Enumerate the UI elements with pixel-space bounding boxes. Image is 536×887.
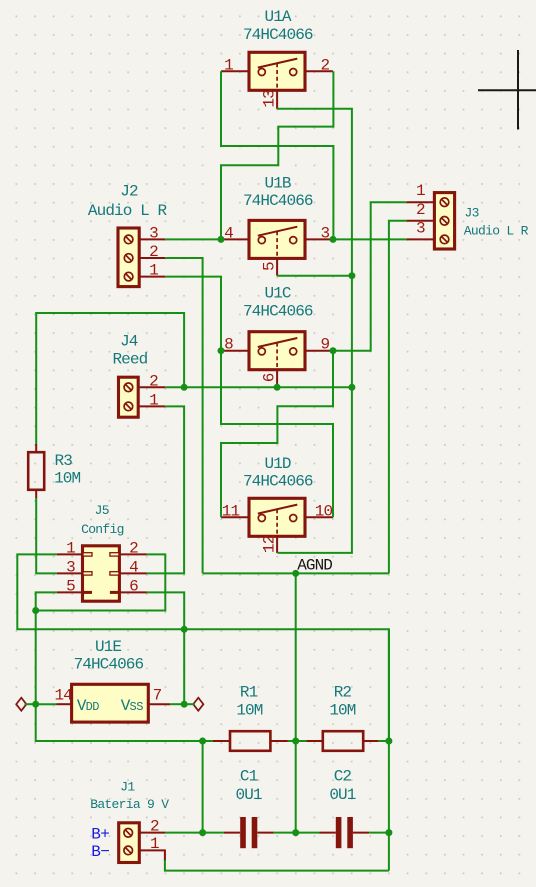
svg-text:2: 2 [129, 539, 138, 557]
junction [348, 272, 355, 279]
svg-text:R2: R2 [334, 684, 352, 702]
junction [199, 738, 206, 745]
wire AGND stem down to capacitor row [295, 573, 297, 832]
svg-text:C1: C1 [240, 768, 258, 786]
svg-text:2: 2 [416, 201, 425, 219]
wire U1C pin9 node to J3 pin1 [333, 202, 406, 351]
svg-text:1: 1 [149, 391, 158, 409]
junction [330, 236, 337, 243]
svg-text:3: 3 [66, 558, 75, 576]
svg-text:14: 14 [54, 687, 72, 705]
svg-text:4: 4 [129, 558, 138, 576]
junction [181, 701, 188, 708]
wire U1C pin9 node to U1D pin11 [221, 351, 333, 518]
junction [385, 829, 392, 836]
wire J2 pin2 down to AGND row [165, 258, 202, 573]
wire rail to R1 [203, 740, 213, 742]
svg-text:10M: 10M [329, 701, 355, 719]
svg-text:J3: J3 [465, 206, 479, 221]
wire J2 pin3 to node [165, 238, 221, 240]
junction [348, 384, 355, 391]
svg-text:5: 5 [66, 577, 75, 595]
wire U1B pin5 to control rail [277, 275, 352, 277]
wire J5 pin6 down to U1E pin7 node [147, 592, 184, 704]
wire stub to left diamond [25, 703, 36, 705]
wire J4 pin2 node up-left-down to R3 top [36, 313, 184, 444]
svg-text:74HC4066: 74HC4066 [243, 473, 313, 491]
svg-text:Reed: Reed [112, 350, 147, 368]
svg-text:Batería 9 V: Batería 9 V [90, 797, 169, 812]
analog switch U1A 74HC4066 [221, 8, 333, 109]
svg-text:9: 9 [320, 336, 329, 354]
wire AGND row up to J3 pin2 [389, 221, 406, 574]
svg-text:B+: B+ [91, 825, 109, 843]
svg-text:Audio L R: Audio L R [88, 202, 168, 220]
connector J4 Reed [112, 332, 165, 417]
svg-text:J2: J2 [120, 183, 138, 201]
wire R2 to VSS column [379, 740, 389, 742]
wire U1A pin2 cross-over to J2.3/U1B.4 node [221, 71, 333, 239]
svg-text:1: 1 [150, 835, 159, 853]
wire stub to right diamond [184, 703, 195, 705]
wire C1 to C2 mid node [274, 832, 320, 834]
wire C2 right to VSS column [369, 832, 389, 834]
svg-text:1: 1 [224, 56, 233, 74]
svg-text:3: 3 [416, 219, 425, 237]
wire AGND row [203, 572, 389, 574]
svg-text:B−: B− [91, 843, 109, 861]
svg-text:R3: R3 [55, 452, 73, 470]
svg-text:3: 3 [149, 224, 158, 242]
power unit U1E 74HC4066 VDD/VSS [54, 638, 170, 722]
junction [181, 626, 188, 633]
svg-text:4: 4 [224, 224, 233, 242]
junction [385, 738, 392, 745]
svg-text:2: 2 [320, 56, 329, 74]
svg-text:74HC4066: 74HC4066 [243, 192, 313, 210]
svg-text:U1D: U1D [265, 455, 291, 473]
svg-text:AGND: AGND [297, 557, 332, 575]
svg-text:U1C: U1C [265, 285, 291, 303]
wire VSS column down [388, 629, 390, 870]
wire U1A pin13 / control rail down to U1D pin12 [277, 109, 352, 553]
wire J2 pin1 down to U1C pin8 node [165, 277, 221, 351]
svg-text:R1: R1 [240, 684, 258, 702]
wire J1 pin1 loop to VSS column [165, 860, 389, 871]
wire U1E pin7 to node [170, 703, 184, 705]
svg-text:10: 10 [315, 502, 333, 520]
junction [199, 829, 206, 836]
svg-text:U1E: U1E [95, 638, 121, 656]
svg-text:U1B: U1B [265, 175, 291, 193]
svg-text:10M: 10M [236, 701, 262, 719]
junction [218, 347, 225, 354]
no-connect diamond right of U1E pin 7 [193, 698, 203, 711]
wire U1A pin1 cross-over to U1B.3/J3.3 node [221, 71, 333, 239]
junction [292, 570, 299, 577]
wire B+ column down to J1 pin2 row [202, 741, 204, 833]
svg-text:12: 12 [261, 535, 279, 553]
resistor R1 10M [213, 684, 288, 751]
connector J1 Bateria 9 V [90, 780, 169, 863]
wire R3 bottom to J5 pin3 [36, 498, 57, 573]
svg-text:J5: J5 [95, 503, 109, 518]
svg-text:10M: 10M [54, 470, 80, 488]
svg-text:6: 6 [129, 577, 138, 595]
svg-text:1: 1 [149, 262, 158, 280]
wire J5 pin5 / VDD column down to rail [36, 592, 203, 741]
svg-text:C2: C2 [334, 768, 352, 786]
no-connect diamond left of U1E pin 14 [16, 698, 26, 711]
svg-text:2: 2 [149, 372, 158, 390]
wire R1 to R2 mid node [288, 740, 306, 742]
svg-text:2: 2 [149, 243, 158, 261]
svg-text:J4: J4 [120, 332, 138, 350]
svg-text:3: 3 [320, 224, 329, 242]
svg-text:5: 5 [261, 262, 279, 271]
svg-text:U1A: U1A [265, 8, 292, 26]
capacitor C2 0U1 [320, 768, 370, 849]
wire J4 pin2 row / switch-control net [165, 386, 352, 388]
svg-text:J1: J1 [120, 780, 135, 795]
svg-text:Config: Config [81, 522, 124, 537]
junction [292, 738, 299, 745]
svg-text:VDD: VDD [77, 697, 99, 715]
analog switch U1B 74HC4066 [221, 175, 333, 276]
connector J3 Audio L R [406, 182, 528, 249]
svg-text:74HC4066: 74HC4066 [243, 26, 313, 44]
svg-text:11: 11 [222, 502, 240, 520]
wire J4 pin1 down to J5 pin4 [147, 406, 184, 573]
junction [292, 829, 299, 836]
wire U1C pin8 node to U1D pin10 [221, 351, 333, 518]
capacitor C1 0U1 [224, 768, 274, 849]
wire J5 pin1 loop to VSS column [17, 554, 389, 741]
svg-text:74HC4066: 74HC4066 [243, 303, 313, 321]
wire J1 pin2 to C1 [165, 832, 224, 834]
resistor R2 10M [306, 684, 378, 751]
svg-text:8: 8 [224, 336, 233, 354]
svg-text:1: 1 [416, 182, 425, 200]
svg-text:VSS: VSS [121, 697, 143, 715]
junction [181, 384, 188, 391]
junction [218, 236, 225, 243]
wire U1B pin3 to J3 pin3 [333, 238, 406, 240]
svg-text:0U1: 0U1 [236, 786, 262, 804]
junction [32, 607, 39, 614]
junction [330, 347, 337, 354]
svg-text:7: 7 [153, 687, 162, 705]
svg-text:74HC4066: 74HC4066 [74, 656, 144, 674]
resistor R3 10M [28, 444, 80, 498]
junction [32, 701, 39, 708]
analog switch U1C 74HC4066 [221, 285, 333, 388]
svg-text:Audio L R: Audio L R [464, 224, 529, 239]
svg-text:2: 2 [150, 817, 159, 835]
svg-text:0U1: 0U1 [329, 786, 355, 804]
svg-text:13: 13 [261, 90, 279, 108]
wire U1E pin14 to VDD column [36, 703, 57, 705]
connector J5 Config [57, 503, 147, 601]
svg-text:1: 1 [66, 539, 75, 557]
connector J2 Audio L R [88, 183, 168, 287]
analog switch U1D 74HC4066 [221, 455, 333, 553]
wire J5 pin2 to left VDD column [36, 554, 166, 610]
svg-text:6: 6 [261, 373, 279, 382]
crosshair mark [478, 50, 536, 130]
junction [274, 384, 281, 391]
